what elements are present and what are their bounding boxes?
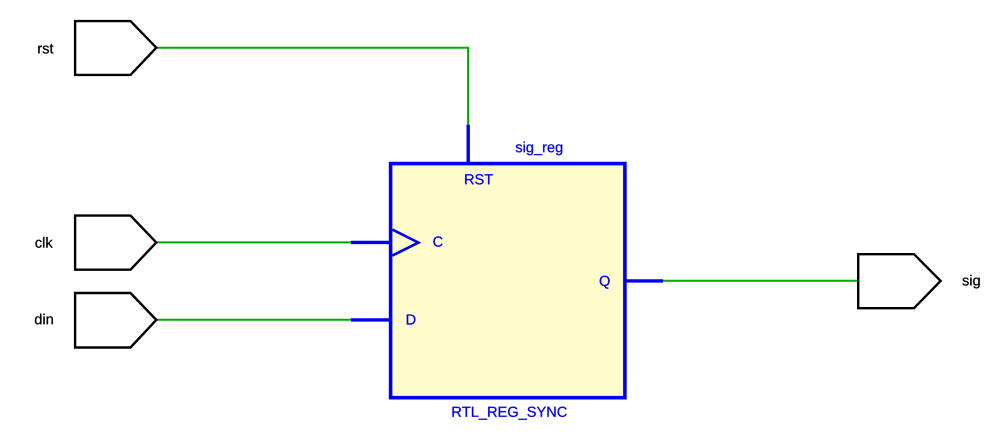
input port rst bbox=[75, 21, 156, 75]
port label sig bbox=[962, 275, 979, 289]
port label din bbox=[35, 314, 53, 325]
wire net clk bbox=[156, 241, 352, 243]
output port sig bbox=[858, 254, 940, 308]
pin label C bbox=[433, 236, 442, 246]
input port clk bbox=[75, 216, 156, 270]
register block sig_reg RTL_REG_SYNC bbox=[391, 164, 625, 398]
port label rst bbox=[38, 44, 53, 54]
pin D bbox=[351, 318, 390, 321]
wire net rst bbox=[156, 48, 468, 125]
input port din bbox=[75, 293, 156, 348]
wire net sig bbox=[662, 280, 858, 282]
port label clk bbox=[35, 237, 52, 248]
pin label RST bbox=[465, 174, 493, 184]
wire net din bbox=[156, 319, 352, 321]
pin label Q bbox=[600, 276, 610, 289]
type label RTL_REG_SYNC bbox=[453, 407, 567, 420]
pin label D bbox=[407, 314, 416, 324]
pin RST (top) bbox=[467, 125, 470, 162]
instance label sig_reg bbox=[516, 142, 563, 156]
pin C (clock) bbox=[351, 241, 390, 244]
pin Q (output) bbox=[625, 279, 663, 282]
clock triangle bbox=[392, 230, 418, 256]
